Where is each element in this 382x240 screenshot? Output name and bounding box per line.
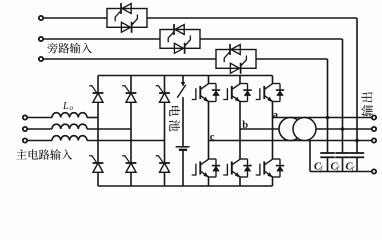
wire bypass phase 1 [44,18,357,153]
node b label [242,120,248,131]
output neutral terminal [372,169,376,173]
node junction bypass/output phase c [355,139,359,143]
label 旁路输入 (bypass input) [47,43,91,54]
wire DC negative bus [98,185,273,187]
svg-text:L: L [62,101,69,112]
wire rectifier leg 3 [164,76,166,187]
wire rectifier leg 2 [130,76,132,187]
IGBT V1 with freewheel diode (inverter top arm 1) [192,84,221,102]
wire bypass phase 2 [44,39,343,153]
output transformer T [279,118,316,141]
IGBT V3 with freewheel diode (inverter top arm 2) [223,84,252,102]
wire phase 3 inductor to rectifier leg 3 [87,140,165,142]
battery GB plates [176,147,190,150]
svg-text:o: o [70,104,74,112]
output terminal phase a [372,115,376,119]
IGBT V4 with freewheel diode (inverter bottom arm 1) [192,159,221,177]
label Cf 2 [331,162,340,174]
wire phase c inverter to transformer and output [209,140,372,142]
output terminal phase c [372,138,376,142]
inductor Lo phase 3 [52,136,87,141]
wire phase 2 to inductor [28,128,52,130]
thyristor VT4 (rectifier bottom arm 1) [89,156,103,173]
thyristor VT1 (rectifier top arm 1) [89,86,103,103]
IGBT V6 with freewheel diode (inverter bottom arm 2) [223,159,252,177]
wire inverter leg 2 [239,76,241,187]
bypass static switch VT11/VT12 (antiparallel thyristors) phase 3 [216,44,256,74]
wire inverter leg 1 [208,76,210,187]
wire battery to DC negative bus [182,150,184,186]
wire phase 2 inductor to rectifier leg 2 [87,128,131,130]
wire phase 1 inductor to rectifier leg 1 [87,117,98,119]
node c label [210,132,215,143]
label Lo (input inductor value) [62,101,74,112]
capacitor Cf phase b [335,153,349,172]
bypass static switch VT7/VT8 (antiparallel thyristors) phase 1 [107,3,147,33]
capacitor Cf phase a [320,153,334,172]
wire capacitor common bus [310,171,371,173]
wire inverter leg 3 [272,76,274,187]
svg-text:b: b [242,120,248,131]
capacitor Cf phase c [350,153,364,172]
label 电池 (battery) [169,106,180,131]
thyristor VT3 (rectifier top arm 3) [156,86,170,103]
svg-text:a: a [273,110,279,121]
IGBT V2 with freewheel diode (inverter bottom arm 3) [256,159,285,177]
main circuit input terminal 3 [23,138,27,142]
inductor Lo phase 2 [52,124,87,129]
wire DC positive bus [98,75,273,77]
wire transformer neutral [309,141,311,172]
node junction bypass/output phase b [341,127,345,131]
label 输出 (output) [361,92,372,116]
main circuit input terminal 2 [23,127,27,131]
svg-text:c: c [210,132,215,143]
node a label [273,110,279,121]
label 主电路输入 (main circuit input) [16,149,72,160]
thyristor VT5 (rectifier bottom arm 2) [122,156,136,173]
bypass input terminal 1 [39,16,43,20]
main circuit input terminal 1 [23,115,27,119]
node junction bypass/output phase a [326,116,330,120]
bypass input terminal 3 [39,57,43,61]
wire switch to battery [182,97,184,146]
wire rectifier leg 1 [97,76,99,187]
wire phase 1 to inductor [28,117,52,119]
wire phase a inverter to transformer and output [273,117,372,119]
thyristor VT2 (rectifier top arm 2) [122,86,136,103]
output terminal phase b [372,127,376,131]
wire phase b inverter to transformer and output [240,128,371,130]
label Cf 3 [346,162,355,174]
IGBT V5 with freewheel diode (inverter top arm 3) [256,84,285,102]
thyristor VT6 (rectifier bottom arm 3) [156,156,170,173]
wire battery branch from DC bus [182,76,184,83]
battery disconnect switch S [177,82,186,98]
label Cf 1 [314,162,323,174]
bypass static switch VT9/VT10 (antiparallel thyristors) phase 2 [160,24,200,54]
bypass input terminal 2 [39,37,43,41]
wire bypass phase 3 [44,59,328,153]
wire phase 3 to inductor [28,140,52,142]
inductor Lo phase 1 [52,113,87,118]
